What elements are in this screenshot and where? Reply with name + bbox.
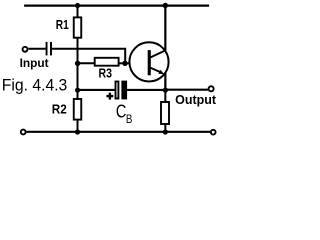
svg-text:Fig. 4.4.3: Fig. 4.4.3: [2, 75, 68, 94]
wire: supply rail to R1 top: [77, 6, 79, 18]
junction: node A to CB: [75, 88, 80, 93]
wire: output node to output terminal: [165, 89, 208, 91]
junction: collector at supply rail: [163, 3, 168, 8]
wire: CB right plate to emitter node: [127, 89, 165, 91]
svg-text:Input: Input: [20, 56, 49, 70]
svg-text:R3: R3: [99, 65, 113, 80]
terminal: 0V left: [21, 130, 26, 135]
wire: emitter to output node: [164, 73, 166, 91]
wire: emitter node to R4 top: [164, 90, 166, 102]
svg-text:Output: Output: [175, 92, 217, 107]
svg-text:R1: R1: [56, 17, 69, 32]
wire: R4 bottom to 0V rail: [164, 124, 166, 132]
wire: R1 bottom to R2 top (node A line): [77, 38, 79, 99]
resistor R2: [74, 99, 82, 120]
svg-text:B: B: [126, 112, 132, 126]
resistor R3: [95, 58, 119, 66]
wire: R2 bottom to 0V rail: [77, 120, 79, 132]
wire: node A to CB left plate: [78, 89, 115, 91]
resistor R1: [74, 17, 82, 37]
wire: C1 to base node (corner at top right): [52, 49, 125, 64]
capacitor CB (bootstrap, polarized): [116, 81, 128, 100]
wire: 0V bottom rail: [27, 131, 211, 133]
terminal: input: [23, 47, 28, 52]
svg-text:R2: R2: [52, 102, 67, 117]
wire: collector to supply rail: [164, 6, 166, 51]
junction: emitter output node: [163, 88, 168, 93]
terminal: 0V right: [211, 130, 216, 135]
wire: top supply rail: [24, 4, 209, 6]
wire: R3 to base node: [119, 62, 125, 64]
junction: R2 at 0V rail: [75, 129, 80, 134]
label + polarity of CB: [106, 93, 113, 100]
wire: input terminal to C1: [28, 48, 45, 50]
svg-text:C: C: [116, 102, 127, 122]
resistor R4 (emitter resistor): [161, 102, 169, 124]
junction: node A to R3: [75, 61, 80, 66]
wire: node A to R3: [78, 62, 95, 64]
wire: base lead: [125, 62, 131, 64]
junction: base node: [122, 61, 127, 66]
junction: node A divider at supply rail: [75, 3, 80, 8]
transistor Q1: [129, 42, 168, 81]
terminal: output: [209, 86, 214, 91]
junction: R4 at 0V rail: [163, 129, 168, 134]
capacitor C1 (input coupling): [47, 42, 51, 56]
